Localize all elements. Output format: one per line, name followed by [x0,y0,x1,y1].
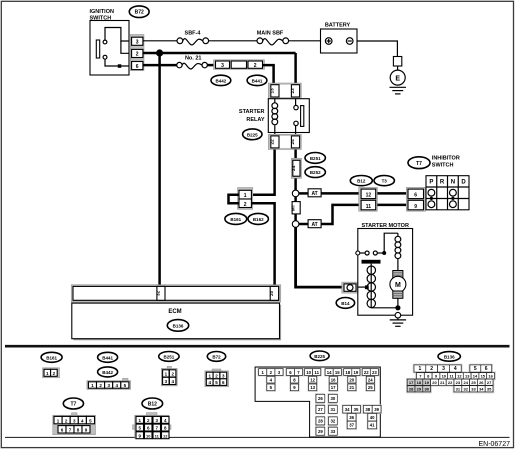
svg-text:B12: B12 [357,179,366,184]
svg-text:B161: B161 [230,217,241,222]
svg-text:24: 24 [290,139,295,145]
svg-text:RELAY: RELAY [246,117,264,123]
connector label B252 [305,167,325,178]
svg-text:20: 20 [349,377,354,382]
ECM connector strip pins 32,20 [71,285,281,302]
svg-text:SBF-4: SBF-4 [185,31,202,37]
svg-text:18: 18 [417,380,422,385]
svg-text:23: 23 [372,370,377,375]
svg-text:3: 3 [136,40,139,46]
svg-text:25: 25 [368,385,373,390]
wire pin11 to pin9 [377,204,408,207]
svg-text:33: 33 [471,387,476,392]
svg-text:23: 23 [456,380,461,385]
connector label T3 [374,176,394,186]
fuse MAIN SBF [257,31,289,45]
svg-text:40: 40 [370,415,375,420]
wire down to relay pin 23 [294,53,297,85]
svg-text:B72: B72 [135,10,144,16]
svg-text:B225: B225 [247,132,258,137]
svg-text:14: 14 [473,374,478,379]
svg-text:STARTER: STARTER [239,109,265,115]
wire pin 2 to ECM pin 20 [251,203,274,287]
pinout B12 label [142,398,163,409]
pinout B12 connector [133,413,171,439]
wire pin12 to pin6 [377,192,408,195]
node junction circle 1 [292,190,299,197]
svg-text:D: D [461,180,466,186]
svg-text:34: 34 [345,407,350,412]
inline connector pins 12,11 [359,187,378,211]
svg-text:13: 13 [465,374,470,379]
svg-text:B441: B441 [252,78,263,83]
wire fusebox to relay pin 13 [263,65,274,85]
ignition switch label [90,9,114,22]
battery [321,23,358,54]
svg-text:30: 30 [424,387,429,392]
starter motor M1 body [356,229,413,319]
connector label B161 [225,213,247,224]
connector B14 box [342,282,358,293]
svg-text:38: 38 [365,407,370,412]
svg-text:3: 3 [442,366,445,372]
pinout B251 label [159,352,179,362]
svg-text:36: 36 [349,415,354,420]
svg-text:16: 16 [331,377,336,382]
inline connector pins 1,2 (B161/B162) [238,188,253,210]
svg-text:B136: B136 [444,354,455,359]
connector label B442 [211,75,231,85]
svg-text:E: E [395,75,400,82]
ECM box [72,303,281,340]
connector label B251 [305,153,325,164]
svg-text:B72: B72 [212,354,221,359]
wire pin3 to fuse SBF-4 [143,40,177,42]
wire relay pin 24 down [294,150,297,159]
svg-text:19: 19 [354,370,359,375]
inhibitor switch connector pins 6,9 [406,187,425,211]
svg-text:10: 10 [306,370,311,375]
svg-text:27: 27 [318,407,323,412]
svg-text:22: 22 [448,380,453,385]
connector label B72 [129,6,149,18]
svg-text:5: 5 [474,366,477,372]
svg-text:T7: T7 [416,161,422,167]
svg-text:T7: T7 [70,402,76,408]
svg-text:18: 18 [345,370,350,375]
svg-text:1: 1 [419,366,422,372]
svg-text:31: 31 [456,387,461,392]
svg-text:14: 14 [327,370,332,375]
svg-text:29: 29 [417,387,422,392]
svg-text:1: 1 [244,193,247,199]
svg-text:23: 23 [290,88,295,94]
wire fuse to fusebox [207,64,215,67]
svg-text:22: 22 [364,370,369,375]
ignition switch SW1 body [90,21,129,76]
pinout T7 label [63,398,83,409]
svg-text:MAIN SBF: MAIN SBF [257,31,284,37]
connector label B14 [336,298,354,309]
svg-text:34: 34 [479,387,484,392]
svg-text:INHIBITOR: INHIBITOR [432,156,460,162]
wire pin6 to fuse No.21 [143,64,177,67]
svg-text:2: 2 [244,202,247,208]
svg-text:31: 31 [331,407,336,412]
svg-text:T3: T3 [382,179,388,184]
svg-text:28: 28 [409,387,414,392]
starter relay R1 top connector pins 13,23 [268,83,301,99]
inhibitor switch label [432,156,460,169]
fuse SBF-4 [177,31,209,45]
svg-text:2: 2 [136,52,139,58]
fuse box pins 3 / 2 [214,60,265,70]
pinout B225 connector outline [255,367,380,437]
svg-text:20: 20 [269,290,274,295]
svg-text:24: 24 [368,377,373,382]
node junction circle 2 [292,221,299,228]
svg-text:24: 24 [291,165,296,171]
starter relay R1 bottom connector pins 22,24 [268,134,301,149]
pinout B161 label [41,352,62,362]
svg-text:12: 12 [366,193,372,199]
svg-text:20: 20 [432,380,437,385]
svg-text:25: 25 [471,380,476,385]
svg-text:M: M [395,282,401,289]
connector label B162 [248,213,268,224]
pinout B225 cells [258,368,382,436]
svg-text:B161: B161 [46,355,57,360]
wire fuse SBF-4 to fuse MAIN SBF [209,40,257,42]
svg-text:N: N [451,180,455,186]
svg-text:AT: AT [311,222,317,228]
ignition switch connector pins 3,2,6 [130,35,144,71]
svg-text:22: 22 [269,139,274,145]
pinout T7 connector [53,413,96,435]
connector label B441 [247,75,267,85]
wire fuse MAIN SBF to battery [289,40,321,42]
pinout B72 connector [205,369,229,387]
svg-text:16: 16 [488,374,493,379]
svg-text:11: 11 [314,370,319,375]
connector label B225 [243,129,262,140]
svg-text:B136: B136 [173,324,184,329]
MT box [291,197,301,221]
inhibitor switch SW2 grid [426,176,469,210]
svg-text:10: 10 [442,374,447,379]
svg-text:3: 3 [221,63,224,69]
pinout B136 cells [406,364,496,394]
svg-text:12: 12 [310,377,315,382]
svg-text:9: 9 [414,204,417,210]
fuse No. 21 [177,55,208,69]
pinout B251 connector [161,366,177,386]
svg-text:6: 6 [136,64,139,70]
svg-text:17: 17 [331,385,336,390]
svg-text:B251: B251 [310,156,321,161]
svg-text:B251: B251 [164,354,175,359]
svg-text:R: R [440,180,445,186]
wire battery to ground [357,41,397,57]
svg-text:4: 4 [454,366,457,372]
svg-text:B442: B442 [102,370,113,375]
svg-text:32: 32 [155,290,160,295]
svg-text:P: P [429,180,433,186]
svg-text:SWITCH: SWITCH [432,163,454,169]
svg-text:12: 12 [457,374,462,379]
junction dot [156,49,163,56]
svg-text:37: 37 [349,423,354,428]
svg-text:21: 21 [440,380,445,385]
svg-text:17: 17 [409,380,414,385]
svg-text:41: 41 [370,423,375,428]
svg-text:2: 2 [430,366,433,372]
svg-text:28: 28 [318,419,323,424]
svg-text:AT: AT [311,191,317,197]
svg-text:33: 33 [331,429,336,434]
svg-text:32: 32 [331,419,336,424]
svg-text:15: 15 [335,370,340,375]
svg-text:BATTERY: BATTERY [325,23,351,29]
pinout B161 connector [43,368,60,378]
svg-text:10: 10 [146,433,151,438]
svg-text:19: 19 [424,380,429,385]
svg-text:6: 6 [414,193,417,199]
svg-text:39: 39 [374,407,379,412]
svg-text:15: 15 [481,374,486,379]
starter relay label [239,109,265,123]
svg-text:6: 6 [485,366,488,372]
svg-text:2: 2 [254,63,257,69]
svg-text:B12: B12 [148,402,157,408]
pinout B442 label [98,367,118,377]
svg-text:30: 30 [331,396,336,401]
svg-text:EN-06727: EN-06727 [478,441,510,448]
svg-text:13: 13 [310,385,315,390]
svg-text:B441: B441 [102,355,113,360]
svg-text:24: 24 [463,380,468,385]
svg-text:B442: B442 [216,78,227,83]
svg-text:B252: B252 [310,170,321,175]
inline connector pin 24 (B251/B252) [291,158,302,178]
svg-text:29: 29 [318,429,323,434]
pinout B225 label [310,351,329,361]
jumper wire pins 1-2 [229,195,240,204]
ground (starter motor) [390,318,406,326]
connector label B12 [350,176,372,186]
starter relay R1 body [268,99,309,135]
svg-text:32: 32 [463,387,468,392]
svg-text:12: 12 [163,433,168,438]
wire pin2 row (thick) [143,52,296,55]
svg-text:B162: B162 [253,217,264,222]
svg-text:MT: MT [291,204,296,211]
svg-text:13: 13 [269,88,274,94]
svg-text:11: 11 [366,204,372,210]
separator line [5,345,510,348]
AT branch 2 [299,205,361,228]
svg-text:No. 21: No. 21 [185,55,202,61]
svg-text:21: 21 [349,385,354,390]
wire relay pin 22 to connector pin 1 [251,150,274,195]
svg-text:26: 26 [318,396,323,401]
svg-text:ECM: ECM [168,309,181,315]
pinout B441/B442 connector [87,378,131,389]
AT branch 1 [299,189,361,197]
svg-text:27: 27 [487,380,492,385]
svg-text:B225: B225 [314,354,325,359]
connector label T7 [408,157,430,169]
svg-text:35: 35 [354,407,359,412]
pinout B441 label [98,352,118,362]
pinout B72 label [207,352,225,362]
svg-text:26: 26 [479,380,484,385]
wire junction to ECM pin 32 [158,53,161,287]
svg-text:IGNITION: IGNITION [90,9,114,15]
svg-text:35: 35 [487,387,492,392]
ground E (battery) [390,57,407,94]
wire node2 to starter motor B14 [296,227,342,287]
pinout B136 label [438,352,460,362]
svg-text:B14: B14 [341,301,350,306]
bottom panel line [5,436,510,438]
wire connector to node [294,178,297,190]
